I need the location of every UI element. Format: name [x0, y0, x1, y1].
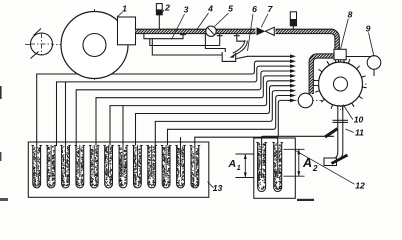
tank bayonet heating tube 6 [105, 145, 113, 188]
svg-text:A: A [228, 158, 237, 170]
wire: heater feed pipe run 2 to tank [57, 66, 291, 146]
svg-text:11: 11 [355, 128, 364, 138]
neck between inlet box and heater [335, 58, 337, 64]
arrowhead flow arrow 1 [290, 59, 296, 63]
centerline vertical through engine pulley [94, 9, 96, 80]
leader line for label 13 [208, 182, 214, 189]
thermometer on pipe before heater [292, 26, 294, 30]
flange tick on stub [180, 34, 186, 36]
small connector box on heater left [313, 81, 318, 86]
main delivery pipe (hatched), item 4 [136, 31, 338, 49]
leader line for label 4 [197, 13, 209, 30]
arrowhead flow arrow 7 [290, 89, 296, 93]
wire: L0 outlet hook and flow arrow 0 [237, 56, 291, 58]
svg-text:13: 13 [213, 183, 223, 193]
tank bayonet heating tube 3 [62, 145, 70, 188]
wire: heater feed pipe run 1 to tank [37, 61, 291, 146]
engine body rectangle, item 1 [118, 17, 136, 45]
elbow pipe into tank 6 (double line) [234, 41, 247, 56]
box 12 heating tube left [258, 143, 266, 192]
tank bayonet heating tube 8 [134, 145, 142, 188]
svg-text:2: 2 [164, 3, 170, 13]
leader line for label 9 [369, 33, 375, 57]
arrowhead flow arrow 6 [290, 84, 296, 88]
shut-off valve, item 7 [256, 27, 276, 37]
wire: heater feed pipe run 3 to tank [76, 71, 290, 146]
heater radial fin ticks [314, 58, 366, 111]
arrowhead flow arrow 0 [290, 54, 296, 58]
drain tap box [324, 158, 337, 166]
engine flywheel (big circle) [61, 12, 128, 79]
wire: heater feed pipe run 9 to tank [195, 100, 291, 146]
leader line for label 2 [162, 10, 164, 13]
tank bayonet heating tube 4 [76, 145, 84, 187]
small drive pulley [31, 33, 53, 55]
pulley belt tick bottom [31, 52, 39, 59]
union flange, item 11 [333, 119, 349, 121]
svg-text:A: A [302, 156, 312, 170]
leader line for label 10 [343, 105, 353, 120]
heater inner circle [334, 77, 348, 91]
wire: branch drop to tank tube 7 [122, 106, 124, 146]
dimension A2 arrow line [298, 149, 300, 176]
wire: drop to tank 6 elbow [237, 34, 246, 41]
wire: heater feed pipe run 8 to tank [168, 96, 291, 147]
safety valve cap, item 9 [367, 56, 381, 70]
svg-text:4: 4 [207, 4, 213, 14]
control tube box, item 12 [254, 138, 295, 198]
wire: supply line L0 from main pipe to tank 6 [150, 39, 222, 55]
oil pump circle left of heater [288, 100, 322, 102]
svg-text:10: 10 [354, 115, 364, 125]
thermometer, item 2 [158, 15, 160, 30]
leader line for label 1 [117, 12, 123, 17]
svg-text:6: 6 [252, 4, 257, 14]
heater drum (big circle), items 8-10 unit [319, 62, 363, 106]
scan artifact marks [0, 86, 2, 99]
leader line for label 8 [341, 19, 349, 49]
drain tap handle [332, 155, 348, 164]
wire: heater feed pipe run 7 to tank [155, 91, 290, 146]
arrowhead flow arrow 3 [290, 69, 296, 73]
hatched riser pipe from oil pump to heater inlet box [311, 56, 334, 94]
svg-text:1: 1 [237, 165, 241, 172]
leader line for label 12 [295, 150, 355, 184]
svg-text:1: 1 [122, 4, 127, 14]
centerline horizontal through pulleys [25, 44, 134, 46]
engine hub inner circle [83, 34, 106, 57]
branch tap handle at pipe to box 12 [325, 129, 338, 137]
leader line for label 7 [261, 14, 268, 28]
tank bayonet heating tube 1 [33, 145, 41, 188]
wire: link to safety cap 9 [346, 56, 371, 58]
arrowhead flow arrow 4 [290, 74, 296, 78]
wire: heater feed pipe run 4 to tank [96, 76, 291, 146]
drain pipe from heater bottom, item 10 [337, 106, 339, 152]
svg-text:5: 5 [228, 4, 233, 14]
wire: pump drain to tank 6 [205, 34, 225, 52]
tank bayonet heating tube 7 [119, 145, 127, 188]
dimension A2 extension lines [284, 148, 305, 150]
svg-text:8: 8 [348, 10, 353, 20]
float tank, item 6 [222, 52, 236, 61]
wire: branch drop to tank tube 3 [65, 82, 67, 146]
leader line for label 11 [346, 129, 354, 133]
wire: drop to suction line right of pump [219, 34, 221, 46]
arrowhead flow arrow 2 [290, 64, 296, 68]
leader line for label 5 [215, 13, 229, 27]
circulating pump, item 5 [206, 26, 216, 36]
tank 6 inlet tip blob [230, 54, 236, 58]
leader line for label 3 [172, 14, 185, 40]
wire: heater feed pipe run 5 to tank [110, 81, 291, 146]
wire: feed pipe to box 12 [262, 135, 334, 137]
heater centerlines [316, 83, 368, 85]
svg-text:12: 12 [355, 181, 365, 191]
dimension A1 extension lines [236, 153, 255, 155]
tank bayonet heating tube 9 [148, 145, 156, 188]
dimension A1 arrow line [244, 154, 246, 178]
drain elbow to tap box [337, 152, 343, 160]
wire: branch drop to tank tube 11 [180, 137, 182, 146]
tank bayonet heating tube 10 [162, 145, 170, 188]
pulley belt tick top [34, 29, 42, 36]
tank bayonet heating tube 5 [90, 145, 98, 188]
wire: feed drops re-draw over box [262, 136, 278, 143]
wire: pump suction stub under main pipe [144, 34, 183, 39]
leader line for label 6 [248, 14, 254, 51]
storage tank, item 13 [28, 142, 209, 197]
heater inlet box, item 8 [334, 49, 346, 59]
svg-text:2: 2 [312, 164, 318, 173]
tank bayonet heating tube 11 [177, 145, 185, 187]
arrowhead flow arrow 8 [290, 94, 296, 98]
tank bayonet heating tube 12 [191, 145, 199, 188]
box 12 heating tube right [274, 143, 282, 192]
svg-text:3: 3 [184, 5, 189, 15]
tank bayonet heating tube 2 [47, 145, 55, 187]
arrowhead flow arrow 9 [290, 99, 296, 103]
wire: heater feed pipe run 6 to tank [136, 86, 291, 146]
svg-text:9: 9 [366, 24, 371, 34]
arrowhead flow arrow 5 [290, 79, 296, 83]
wire: drops into box 12 tubes [261, 136, 263, 157]
